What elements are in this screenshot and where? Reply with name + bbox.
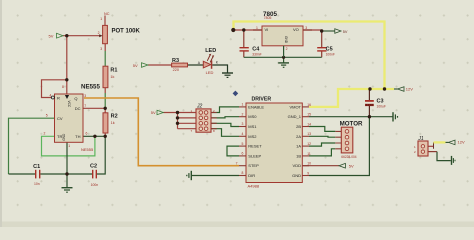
wire 2A to motor pin2 xyxy=(309,135,335,138)
wire GND_1 row to ground xyxy=(309,116,393,118)
svg-text:DRIVER: DRIVER xyxy=(252,97,272,103)
wire 12V terminal stub top right xyxy=(394,88,398,90)
svg-text:3: 3 xyxy=(84,94,86,98)
wire J1 pin1 to 12V xyxy=(428,142,449,148)
svg-text:POT 100K: POT 100K xyxy=(112,28,141,34)
wire 5V vertical rail to VCC pin xyxy=(66,36,68,94)
svg-text:GND: GND xyxy=(62,133,66,141)
wire R2 bottom to TH node xyxy=(104,133,106,136)
wire C5 leads xyxy=(321,31,323,57)
wire J2 pin6 to MS1 xyxy=(211,123,239,126)
svg-text:VCC: VCC xyxy=(67,101,71,108)
terminal 5V at R3 xyxy=(133,63,148,68)
wire C4 leads xyxy=(243,30,245,57)
svg-text:ENABLE: ENABLE xyxy=(248,104,264,109)
svg-text:100uF: 100uF xyxy=(377,104,386,108)
capacitor C2 xyxy=(90,164,98,187)
svg-text:4: 4 xyxy=(242,132,244,136)
svg-text:5V: 5V xyxy=(343,30,348,34)
resistor R1 xyxy=(103,66,117,88)
svg-text:NE555: NE555 xyxy=(81,83,100,90)
wire 5V feed top-left horizontal to pot wiper xyxy=(63,35,101,37)
terminal 12V top right xyxy=(398,87,414,92)
svg-text:9: 9 xyxy=(307,171,309,175)
svg-text:R: R xyxy=(57,96,60,101)
capacitor C4 xyxy=(240,46,262,56)
wire RESET-SLEEP loop xyxy=(227,146,239,156)
svg-text:3: 3 xyxy=(242,122,244,126)
stepper driver U3 A4988 DRIVER xyxy=(236,97,312,189)
wire CV pin 5 to left rail xyxy=(9,118,55,174)
svg-text:6: 6 xyxy=(86,132,88,136)
capacitor C5 xyxy=(317,46,335,56)
regulator U2 7805 xyxy=(253,11,312,57)
ground at J1 xyxy=(452,156,456,165)
svg-text:STEP: STEP xyxy=(248,163,259,168)
svg-text:3: 3 xyxy=(100,47,102,51)
svg-text:1k: 1k xyxy=(111,121,115,125)
svg-text:5V: 5V xyxy=(49,33,54,38)
svg-text:5: 5 xyxy=(46,113,48,117)
LED D1 xyxy=(198,48,219,75)
svg-text:1: 1 xyxy=(100,17,102,21)
wire bottom rail through C1 C2 xyxy=(9,173,93,175)
svg-text:TH: TH xyxy=(75,134,80,139)
terminal 5V top left xyxy=(49,33,64,38)
connector J1 xyxy=(414,136,428,156)
svg-text:6: 6 xyxy=(242,152,244,156)
terminal 5V at VDD xyxy=(339,163,354,168)
svg-text:2B: 2B xyxy=(296,124,301,129)
svg-text:3: 3 xyxy=(305,26,307,30)
wire R1 bottom to DC node xyxy=(104,88,106,109)
wire 5V to J2 fan xyxy=(163,113,196,129)
svg-text:2: 2 xyxy=(98,31,100,35)
wire J1 pin2 to ground xyxy=(428,152,451,161)
terminal 12V at J1 xyxy=(449,140,465,145)
wire 1A to motor pin3 xyxy=(309,143,335,146)
resistor R2 xyxy=(103,113,118,133)
svg-text:10n: 10n xyxy=(34,182,40,186)
ground left of DIR xyxy=(187,171,192,180)
svg-text:12V: 12V xyxy=(406,87,413,92)
svg-text:1k: 1k xyxy=(110,75,114,79)
svg-text:A4988: A4988 xyxy=(248,184,260,189)
svg-text:5: 5 xyxy=(242,142,244,146)
wire 7805 VO to output node xyxy=(303,29,322,31)
svg-text:NC: NC xyxy=(104,12,110,16)
svg-text:C1: C1 xyxy=(33,164,40,170)
wire 1B to motor pin4 xyxy=(309,149,335,156)
ground under LED xyxy=(222,73,233,77)
wire 12V input node to 7805 VI xyxy=(233,29,262,31)
svg-text:GND_1: GND_1 xyxy=(288,114,302,119)
ground under 7805 xyxy=(278,63,289,67)
svg-text:15: 15 xyxy=(307,113,311,117)
wire DC node to R2 top xyxy=(104,108,106,113)
ground right of C3 node xyxy=(393,112,398,121)
wire TH pin 6 xyxy=(83,135,105,137)
wire DIR to ground xyxy=(192,175,240,177)
connector MOTOR xyxy=(335,121,363,159)
svg-text:14: 14 xyxy=(307,122,311,126)
svg-text:16: 16 xyxy=(307,103,311,107)
svg-text:VI: VI xyxy=(265,27,269,32)
svg-text:GND: GND xyxy=(284,36,288,44)
svg-text:12V: 12V xyxy=(458,140,465,145)
svg-text:10: 10 xyxy=(307,162,311,166)
svg-text:VMOT: VMOT xyxy=(289,104,301,109)
svg-text:CV: CV xyxy=(57,116,63,121)
wire LED cathode to ground xyxy=(212,65,227,73)
wire Q output orange to STEP xyxy=(84,98,239,166)
svg-text:MS2: MS2 xyxy=(248,134,257,139)
capacitor C3 electrolytic xyxy=(365,99,386,109)
svg-text:R2: R2 xyxy=(111,114,118,120)
wire TH node down to C2 right plate xyxy=(97,136,105,174)
svg-text:GND: GND xyxy=(292,173,301,178)
svg-text:12: 12 xyxy=(307,142,311,146)
wire pot pin3 to R1 top xyxy=(104,44,106,66)
svg-text:R3: R3 xyxy=(172,58,179,64)
wire junction at (66.8,79.8) to R pin 4 of U1 xyxy=(42,80,67,98)
svg-text:7805: 7805 xyxy=(264,16,272,20)
svg-text:MS1: MS1 xyxy=(248,124,257,129)
wire J2 pin8 to MS2 xyxy=(211,129,239,137)
svg-text:DIR: DIR xyxy=(248,173,255,178)
svg-text:2A: 2A xyxy=(296,134,301,139)
node marker blue diamond xyxy=(233,91,239,97)
svg-text:MS0: MS0 xyxy=(248,114,257,119)
svg-text:DC: DC xyxy=(75,106,81,111)
wire R3 to LED anode xyxy=(188,64,204,66)
wire VDD to 5V terminal xyxy=(303,165,339,167)
resistor R3 xyxy=(172,58,188,72)
wire DC pin 7 to R1/R2 node xyxy=(83,107,105,109)
op 555 timer U1 NE555 xyxy=(44,83,101,151)
svg-text:NE555: NE555 xyxy=(81,147,94,152)
wire GND pin 1 down to ground xyxy=(66,142,68,187)
svg-text:SLEEP: SLEEP xyxy=(248,153,261,158)
svg-text:5V: 5V xyxy=(349,164,354,169)
svg-text:Q: Q xyxy=(74,96,77,101)
svg-text:LED: LED xyxy=(205,48,216,54)
svg-text:100n: 100n xyxy=(91,183,99,187)
svg-text:7: 7 xyxy=(236,162,238,166)
svg-text:11: 11 xyxy=(307,152,311,156)
svg-text:2: 2 xyxy=(286,47,288,51)
svg-text:1: 1 xyxy=(256,26,258,30)
wire 5V terminal to R3 xyxy=(148,64,172,66)
svg-text:5V: 5V xyxy=(151,110,156,115)
svg-text:220: 220 xyxy=(173,68,179,72)
svg-text:1B: 1B xyxy=(296,153,301,158)
wire driver GND pin 9 to ground node xyxy=(309,117,369,176)
svg-text:66228-004: 66228-004 xyxy=(341,155,356,159)
terminal 5V 7805 output xyxy=(335,29,348,34)
junction node dots xyxy=(65,28,386,176)
svg-text:1: 1 xyxy=(68,144,70,148)
svg-text:VDD: VDD xyxy=(293,163,302,168)
svg-text:330nF: 330nF xyxy=(252,52,261,56)
capacitor C1 xyxy=(33,164,40,186)
svg-text:8: 8 xyxy=(62,85,64,89)
wire J2 pin2 to ENABLE xyxy=(211,107,239,113)
svg-text:MOTOR: MOTOR xyxy=(340,121,363,128)
svg-text:1A: 1A xyxy=(296,144,301,149)
connector J2 xyxy=(191,104,217,133)
svg-text:2: 2 xyxy=(242,112,244,116)
svg-text:1: 1 xyxy=(242,103,244,107)
svg-text:RESET: RESET xyxy=(248,144,262,149)
svg-text:7: 7 xyxy=(84,104,86,108)
svg-text:5V: 5V xyxy=(133,63,138,68)
terminal 5V at J2 xyxy=(151,110,164,115)
wire TR-TH feedback loop xyxy=(42,136,95,156)
ground under 555 xyxy=(62,188,73,193)
svg-text:C2: C2 xyxy=(90,164,97,170)
svg-text:4: 4 xyxy=(50,94,52,98)
wire 12V top yellow rail xyxy=(234,22,395,90)
svg-text:100nF: 100nF xyxy=(326,52,335,56)
wire 7805 ground rail xyxy=(244,57,322,62)
potentiometer RV1 POT 100K xyxy=(98,12,141,51)
svg-text:8: 8 xyxy=(242,171,244,175)
svg-text:VO: VO xyxy=(293,27,299,32)
svg-text:2: 2 xyxy=(44,132,46,136)
wire C3 leads xyxy=(368,89,370,117)
svg-text:LED: LED xyxy=(206,70,214,75)
wire 2B to motor pin1 xyxy=(309,127,335,132)
svg-text:13: 13 xyxy=(307,132,311,136)
wire VMOT yellow xyxy=(309,89,385,107)
wire 7805 output node to 5V terminal xyxy=(322,30,335,32)
wire J2 pin4 to MS0 xyxy=(211,117,239,118)
svg-text:R1: R1 xyxy=(110,68,117,74)
